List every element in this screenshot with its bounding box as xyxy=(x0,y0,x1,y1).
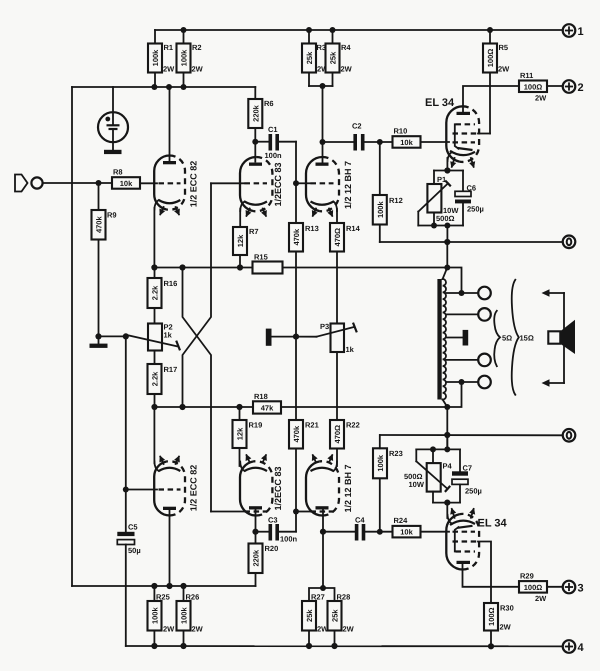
svg-text:50µ: 50µ xyxy=(128,546,141,555)
wire: grid of lower ECC82 xyxy=(126,489,157,491)
svg-text:2W: 2W xyxy=(535,94,547,103)
svg-text:R10: R10 xyxy=(394,127,408,136)
svg-text:R17: R17 xyxy=(164,365,178,374)
junction dots bottom rail xyxy=(151,643,157,649)
wire: lower ECC83 anode to C3 node xyxy=(255,509,257,544)
resistor R12 100k xyxy=(373,142,403,242)
wire: input to R8 xyxy=(43,182,112,184)
capacitor C2 xyxy=(323,122,393,151)
svg-text:470k: 470k xyxy=(292,425,301,443)
wire: upper ECC83 cathode to R7 xyxy=(239,209,241,227)
resistor R9 470k xyxy=(92,183,117,336)
svg-text:EL 34: EL 34 xyxy=(478,518,508,530)
svg-text:2W: 2W xyxy=(341,65,353,74)
svg-text:R28: R28 xyxy=(337,593,351,602)
junction dot R23/R24 node xyxy=(377,529,383,535)
svg-text:5Ω: 5Ω xyxy=(502,334,512,343)
secondary tap 2 xyxy=(446,308,491,321)
svg-text:2W: 2W xyxy=(163,65,175,74)
svg-text:R11: R11 xyxy=(520,71,533,80)
svg-text:1k: 1k xyxy=(164,331,173,340)
svg-text:47k: 47k xyxy=(261,404,274,413)
svg-text:4: 4 xyxy=(578,642,585,654)
svg-text:25k: 25k xyxy=(331,609,340,622)
svg-text:100k: 100k xyxy=(180,49,189,67)
terminal 3 xyxy=(563,581,584,595)
wire: lower EL34 cathode up to bus xyxy=(446,503,448,518)
ground bar xyxy=(98,336,100,343)
junction dot winding bottom node xyxy=(444,404,450,410)
wire: lower EL34 anode down and to R29 xyxy=(463,564,520,587)
wire: R27/R28 top bracket xyxy=(309,588,335,601)
svg-text:100k: 100k xyxy=(376,454,385,472)
svg-text:2W: 2W xyxy=(498,65,510,74)
svg-text:100Ω: 100Ω xyxy=(486,49,495,68)
resistor R25 100k 2W xyxy=(148,586,176,646)
terminal 4 xyxy=(563,640,585,654)
svg-text:25k: 25k xyxy=(305,609,314,622)
resistor R28 25k 2W xyxy=(328,593,355,647)
resistor R11 100ohm 2W xyxy=(519,71,563,103)
svg-text:C6: C6 xyxy=(467,184,477,193)
wire: winding top node to tap 1 xyxy=(447,268,461,294)
svg-text:10k: 10k xyxy=(120,179,133,188)
wire: R21 to lower coupling node xyxy=(295,449,297,532)
capacitor C1 100n xyxy=(255,125,296,160)
wire: left feedback wire (outer loop) xyxy=(71,87,73,586)
resistor R26 100k 2W xyxy=(177,586,204,646)
wire: bar to P3 wiper node xyxy=(272,336,297,338)
svg-text:1/2 12 BH 7: 1/2 12 BH 7 xyxy=(343,161,353,209)
junction dot 0 rail lower xyxy=(444,432,450,438)
capacitor C4 xyxy=(323,516,393,541)
wire: EL34 screen to R5 xyxy=(478,133,490,135)
resistor R23 100k xyxy=(373,435,403,532)
resistor R4 25k 2W xyxy=(326,30,353,86)
junction dot rail30/R2 xyxy=(181,27,187,33)
wire: bottom bus to 0 rail xyxy=(446,226,448,243)
svg-text:2.2k: 2.2k xyxy=(151,371,160,386)
svg-text:P1: P1 xyxy=(437,175,446,184)
svg-text:C2: C2 xyxy=(352,122,362,131)
wire: cathode rail (y267.5) left part xyxy=(154,267,252,269)
resistor R3 25k 2W xyxy=(302,30,329,86)
svg-text:C3: C3 xyxy=(268,516,278,525)
ground node under R9 xyxy=(95,333,101,339)
wire: lower 12BH7 anode down to R27/R28 bracket xyxy=(322,509,324,588)
svg-text:1: 1 xyxy=(578,26,584,38)
svg-text:R8: R8 xyxy=(113,168,123,177)
transformer core (primary) xyxy=(437,279,441,400)
wire: grid line lower 12BH7 xyxy=(296,511,310,513)
junction dot C3 node xyxy=(252,529,258,535)
svg-text:R30: R30 xyxy=(500,604,514,613)
junction dot lower ECC82 grid tap xyxy=(123,487,129,493)
svg-text:25k: 25k xyxy=(329,51,338,64)
wire: ECC83 anode lead xyxy=(254,142,256,162)
svg-text:100Ω: 100Ω xyxy=(487,607,496,626)
svg-text:1/2ECC 83: 1/2ECC 83 xyxy=(273,466,283,510)
svg-text:250µ: 250µ xyxy=(465,487,482,496)
junction dot C4 node xyxy=(320,529,326,535)
wire: R8 to ECC82 grid xyxy=(140,182,157,184)
junction dot lower 12BH7 grid xyxy=(293,509,299,515)
svg-text:R26: R26 xyxy=(186,593,200,602)
capacitor C7 250u xyxy=(452,449,482,502)
capacitor C5 50u xyxy=(117,523,140,647)
wire: R22 to lower 12BH7 cathode xyxy=(336,449,338,467)
svg-text:2W: 2W xyxy=(192,625,204,634)
svg-text:R12: R12 xyxy=(389,196,403,205)
wire: R10 to EL34 grid xyxy=(421,141,450,143)
svg-text:12k: 12k xyxy=(236,234,245,247)
svg-text:R2: R2 xyxy=(192,43,202,52)
svg-text:R1: R1 xyxy=(164,43,174,52)
svg-text:R16: R16 xyxy=(164,279,178,288)
wire: P4/C7 bottom bus xyxy=(433,502,460,504)
junction dots on y87 rail xyxy=(151,84,157,90)
junction dot 12BH7 anode / C2 xyxy=(320,139,326,145)
tube upper 1/2 ECC82 xyxy=(154,156,185,215)
resistor R7 12k xyxy=(233,227,259,268)
wire: P1/C6 top bus xyxy=(434,170,463,172)
junction dot bracket xyxy=(320,585,326,591)
svg-text:1k: 1k xyxy=(346,345,355,354)
resistor R21 470k xyxy=(289,420,319,449)
input connector symbol xyxy=(15,175,43,192)
junction dot 0 rail / cathode network xyxy=(444,239,450,245)
resistor R6 220k xyxy=(248,87,273,142)
wire: +1 supply rail (top) xyxy=(155,29,563,31)
svg-text:470k: 470k xyxy=(95,216,104,234)
wire: EL34 anode up and to R11 xyxy=(463,86,519,112)
wire: R24 to lower EL34 grid xyxy=(421,531,450,533)
svg-text:220k: 220k xyxy=(252,549,261,567)
resistor R20 220k xyxy=(249,544,279,587)
resistor R13 470k xyxy=(289,223,319,252)
wire: upper ECC82 cathode down to cathode rail xyxy=(153,208,155,268)
tube lower 1/2 12BH7 xyxy=(306,455,339,515)
svg-text:100k: 100k xyxy=(151,607,160,625)
wire: ground to grid line of lower ECC82 / P2 wiper xyxy=(99,335,126,337)
wire: winding bottom node xyxy=(443,400,448,450)
svg-text:R20: R20 xyxy=(265,544,279,553)
resistor R2 100k 2W xyxy=(177,30,204,87)
svg-text:2W: 2W xyxy=(163,625,175,634)
svg-text:R9: R9 xyxy=(107,211,117,220)
svg-text:2: 2 xyxy=(578,82,584,94)
svg-text:100n: 100n xyxy=(265,151,283,160)
wire: 0 rail down to winding top xyxy=(443,242,448,279)
svg-text:1/2ECC 83: 1/2ECC 83 xyxy=(273,162,283,206)
chassis bar below stabilizer xyxy=(104,150,122,154)
svg-text:470Ω: 470Ω xyxy=(333,425,342,444)
potentiometer P2 1k xyxy=(126,323,180,351)
wire: lower ECC82 anode down to B rail xyxy=(169,510,171,587)
svg-text:P3: P3 xyxy=(320,322,329,331)
junction dots P4 top bus xyxy=(430,446,436,452)
brace 15 ohm xyxy=(512,280,519,395)
resistor R16 2.2k xyxy=(148,268,178,324)
svg-text:3: 3 xyxy=(578,583,584,595)
svg-text:2W: 2W xyxy=(343,625,355,634)
svg-text:R4: R4 xyxy=(341,43,351,52)
svg-text:R3: R3 xyxy=(317,43,327,52)
resistor R1 100k 2W xyxy=(148,30,175,87)
wire: R14 down to P3 top xyxy=(336,252,338,324)
svg-text:R14: R14 xyxy=(346,224,361,233)
wire: R13 down to P3 wiper node xyxy=(295,252,297,337)
wire: down to C5 and lower ECC82 grid xyxy=(125,336,127,531)
wire: 0 rail down to P4 bus xyxy=(446,435,448,449)
wire: cross-coupling upper rail to lower-grid (X right-down) xyxy=(183,268,212,512)
secondary centre tap with terminal bar xyxy=(446,330,468,346)
tap bar (feedback link) xyxy=(266,329,272,346)
svg-text:R27: R27 xyxy=(311,593,325,602)
loudspeaker xyxy=(548,320,575,354)
wire: upper 12BH7 grid from C1 node xyxy=(296,182,310,184)
terminal 1 xyxy=(563,24,584,38)
wire: lower ECC83 grid line xyxy=(211,511,244,513)
terminal 0 (lower) xyxy=(563,429,576,442)
potentiometer P1 500ohm 10W xyxy=(418,171,459,226)
wire: y407 rail end up to tap 4 xyxy=(447,382,461,407)
junction dot cathode bus lower xyxy=(444,500,450,506)
svg-text:R21: R21 xyxy=(305,421,319,430)
resistor R22 470ohm xyxy=(330,420,360,449)
wire: upper 12BH7 cathode to R14 xyxy=(336,209,338,223)
resistor R15 xyxy=(253,253,283,274)
svg-text:P4: P4 xyxy=(443,462,453,471)
svg-text:1/2 12 BH 7: 1/2 12 BH 7 xyxy=(343,464,353,512)
wire: lower feedback rail (y407) left part xyxy=(155,406,254,408)
wire: lower B rail (y586) xyxy=(72,585,256,587)
svg-text:2.2k: 2.2k xyxy=(151,285,160,300)
svg-text:EL 34: EL 34 xyxy=(425,97,455,109)
wire: upper ECC83 grid to cross-coupling xyxy=(211,182,244,184)
svg-text:470Ω: 470Ω xyxy=(333,228,342,247)
wire: 0 rail (lower) xyxy=(380,434,563,436)
resistor R17 2.2k xyxy=(148,351,178,408)
svg-text:100k: 100k xyxy=(376,201,385,219)
wire: cathode rail (y267.5) right part to transformer xyxy=(283,267,448,269)
svg-text:2W: 2W xyxy=(500,623,512,632)
junction dots rail30 R3 R4 xyxy=(306,27,312,33)
wire: P3 bottom to R22 xyxy=(336,352,338,420)
svg-text:R13: R13 xyxy=(305,224,319,233)
junction dot bracket xyxy=(320,83,326,89)
svg-text:250µ: 250µ xyxy=(467,205,484,214)
wire: 0 rail (upper) xyxy=(380,241,563,243)
potentiometer P4 500ohm 10W xyxy=(404,449,453,502)
svg-text:100k: 100k xyxy=(180,607,189,625)
resistor R5 100ohm 2W xyxy=(483,30,510,134)
svg-text:2W: 2W xyxy=(192,65,204,74)
wire: R3/R4 bottom bracket to 12BH7 anode xyxy=(309,85,333,87)
wire: upper ECC82 anode to B+ rail xyxy=(169,87,171,162)
brace 5 ohm xyxy=(494,311,500,366)
wire: EL34 cathode down xyxy=(446,158,448,171)
junction dot cathode bus xyxy=(444,167,450,173)
terminal 2 xyxy=(563,80,584,94)
secondary tap 4 xyxy=(446,376,491,389)
wire: P4/C7 top bus xyxy=(416,448,460,450)
wire: bottom supply rail (y646) xyxy=(126,645,563,647)
svg-text:1/2 ECC 82: 1/2 ECC 82 xyxy=(189,161,199,208)
svg-text:C5: C5 xyxy=(128,523,138,532)
svg-text:2W: 2W xyxy=(535,594,547,603)
svg-text:R25: R25 xyxy=(156,593,170,602)
junction dots bottom bus xyxy=(431,223,437,229)
speaker connection wires with arrows xyxy=(542,289,565,386)
svg-text:R7: R7 xyxy=(249,227,259,236)
tube EL34 (upper) xyxy=(446,106,479,167)
junction dots y586 rail xyxy=(151,583,157,589)
svg-text:C7: C7 xyxy=(463,464,473,473)
potentiometer P3 1k xyxy=(296,322,357,354)
voltage stabilizer tube (circle with dot) xyxy=(98,87,128,150)
tube lower 1/2 ECC83 xyxy=(240,455,272,515)
svg-text:10W: 10W xyxy=(409,480,425,489)
wire: y407 rail right part to transformer xyxy=(281,406,447,408)
svg-text:470k: 470k xyxy=(292,228,301,246)
svg-text:C4: C4 xyxy=(355,516,365,525)
tube EL34 (lower) xyxy=(446,509,479,570)
junction dot C2/R10/R12 xyxy=(377,139,383,145)
resistor R30 100ohm 2W xyxy=(484,603,514,646)
svg-text:10k: 10k xyxy=(400,528,413,537)
svg-text:220k: 220k xyxy=(251,104,260,122)
svg-text:R24: R24 xyxy=(394,516,409,525)
junction dots y407 rail xyxy=(151,404,157,410)
resistor R29 100ohm 2W xyxy=(519,572,563,603)
svg-text:100n: 100n xyxy=(280,535,298,544)
svg-text:500Ω: 500Ω xyxy=(436,214,455,223)
resistor R19 12k xyxy=(233,407,263,466)
junction dot rail30/R5 xyxy=(487,27,493,33)
svg-text:R15: R15 xyxy=(254,253,268,262)
svg-text:R18: R18 xyxy=(254,392,268,401)
junction dot R6/C1/ECC83 anode xyxy=(252,139,258,145)
junction dots cathode rail xyxy=(151,264,157,270)
wire: lower ECC82 cathode up to y407 rail xyxy=(153,407,155,463)
svg-text:R22: R22 xyxy=(346,421,360,430)
transformer secondary winding xyxy=(443,279,446,400)
resistor R27 25k 2W xyxy=(302,593,329,647)
wire: B+ rail (y87) feeding R1/R2, stabilizer, R6 xyxy=(72,86,255,88)
svg-text:15Ω: 15Ω xyxy=(520,334,534,343)
wire: coupling line C1 to R13 xyxy=(295,142,297,223)
wire: cross-coupling upper-grid to lower rail (X left-down) xyxy=(183,183,212,407)
svg-text:100Ω: 100Ω xyxy=(524,583,543,592)
resistor R18 47k xyxy=(253,392,281,414)
wire: lower EL34 screen to R30 xyxy=(478,542,491,604)
svg-text:R5: R5 xyxy=(499,43,509,52)
resistor R8 10k xyxy=(112,168,140,189)
svg-text:C1: C1 xyxy=(268,125,278,134)
svg-text:10k: 10k xyxy=(400,138,413,147)
terminal 0 (upper) xyxy=(563,236,576,249)
svg-text:R23: R23 xyxy=(389,449,403,458)
svg-text:100Ω: 100Ω xyxy=(524,82,543,91)
junction dot input/R9 xyxy=(96,180,102,186)
wire: P1/C6 bottom bus xyxy=(418,225,463,227)
resistor R10 10k xyxy=(393,127,421,148)
resistor R24 10k xyxy=(393,516,421,537)
svg-text:25k: 25k xyxy=(305,51,314,64)
junction dot winding top node xyxy=(444,265,450,271)
svg-text:12k: 12k xyxy=(236,427,245,440)
junction dot P3 wiper node xyxy=(293,334,299,340)
svg-text:1/2 ECC 82: 1/2 ECC 82 xyxy=(189,465,199,512)
secondary tap 1 xyxy=(446,287,491,300)
capacitor C3 100n xyxy=(256,516,298,544)
secondary tap 3 xyxy=(446,354,491,367)
capacitor C6 250u xyxy=(455,171,484,226)
svg-text:R19: R19 xyxy=(249,421,263,430)
wire: R13 node down to R21 xyxy=(295,337,297,420)
tube lower 1/2 ECC82 xyxy=(154,457,185,516)
svg-text:R29: R29 xyxy=(520,572,534,581)
tube upper 1/2 12BH7 xyxy=(306,157,339,216)
junction dot 12BH7 grid xyxy=(293,180,299,186)
svg-text:R6: R6 xyxy=(264,99,274,108)
tube upper 1/2 ECC83 xyxy=(240,157,272,216)
resistor R14 470ohm xyxy=(330,223,361,252)
junction dot ground wire xyxy=(123,333,129,339)
svg-text:100k: 100k xyxy=(151,49,160,67)
